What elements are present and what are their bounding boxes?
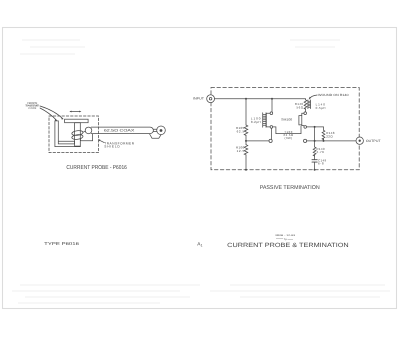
label FERRITE TRANSFORMER CORE — [25, 102, 39, 110]
wire to open terminal — [246, 140, 269, 142]
T bracket — [302, 113, 304, 125]
junction dot — [314, 126, 316, 128]
svg-text:62.5: 62.5 — [237, 129, 245, 133]
wire — [245, 135, 247, 144]
junction dot — [271, 98, 273, 100]
L100 label — [251, 116, 261, 124]
svg-text:CURRENT PROBE - P6016: CURRENT PROBE - P6016 — [66, 165, 127, 171]
output wire — [307, 140, 356, 142]
wire branch R140 — [305, 99, 307, 100]
transformer shield dashed box — [49, 116, 99, 153]
T100 label — [284, 130, 294, 140]
leader wire to slider core — [40, 106, 63, 119]
interconnect wire — [273, 126, 301, 133]
svg-text:TYPE P6016: TYPE P6016 — [44, 241, 80, 246]
wire down to R149 — [314, 127, 316, 147]
R148 label — [326, 131, 335, 138]
resistor R105 — [244, 125, 248, 135]
wound-on leader arrow — [309, 95, 317, 99]
wire L100 to open terminal — [270, 128, 272, 139]
center leg — [75, 123, 81, 146]
svg-text:CURRENT PROBE & TERMINATION: CURRENT PROBE & TERMINATION — [227, 242, 349, 249]
winding lead upper — [83, 131, 85, 132]
svg-text:INPUT: INPUT — [193, 97, 204, 101]
svg-text:12.5: 12.5 — [237, 149, 245, 153]
svg-text:PASSIVE TERMINATION: PASSIVE TERMINATION — [260, 185, 320, 191]
U core outer — [55, 121, 81, 147]
R105 label — [236, 126, 245, 133]
svg-text:8.2µH: 8.2µH — [251, 120, 261, 124]
winding turn 1 — [72, 130, 84, 136]
resistor R149 — [313, 147, 316, 156]
svg-text:Tµ: Tµ — [284, 238, 288, 241]
junction dot — [323, 140, 325, 142]
R140 label — [295, 102, 304, 109]
junction dot on shield — [314, 169, 316, 171]
L100 shield bracket — [266, 113, 270, 127]
svg-text:SM100: SM100 — [281, 117, 292, 121]
BNC flange — [150, 134, 161, 138]
svg-text:WOUND ON R140: WOUND ON R140 — [318, 93, 349, 97]
T terminal circle top — [304, 112, 307, 115]
U core inner — [58, 121, 74, 144]
top bus wire — [215, 98, 306, 100]
L140 winding ladder — [308, 100, 311, 109]
BNC center pin — [160, 129, 163, 132]
termination dashed box — [211, 88, 359, 170]
C149 label — [318, 158, 327, 165]
resistor R140 — [304, 100, 307, 109]
capacitor C149 — [312, 160, 317, 162]
label TRANSFORMER SHIELD — [104, 141, 134, 148]
svg-text:56Ω: 56Ω — [297, 106, 304, 110]
wire R140 to T — [305, 109, 307, 112]
sliding core bar — [65, 119, 89, 123]
wire R148 to output line — [323, 138, 325, 141]
svg-text:6-8: 6-8 — [318, 161, 324, 165]
svg-text:SHIELD: SHIELD — [104, 145, 120, 149]
L140 label — [316, 103, 326, 111]
wire branch L100 — [271, 99, 273, 112]
output connector — [356, 137, 363, 144]
wire C149 to shield — [314, 162, 316, 170]
T outer loop — [299, 116, 302, 125]
winding turn 2 — [72, 134, 84, 140]
slide double arrow — [71, 111, 81, 113]
ghost bleedthrough bottom — [12, 285, 390, 303]
svg-text:0.5µH: 0.5µH — [316, 106, 326, 110]
draftsman underline — [276, 239, 293, 240]
svg-text:MRH - 12-63: MRH - 12-63 — [276, 234, 296, 237]
T terminal circle bottom — [304, 126, 307, 129]
svg-text:OUTPUT: OUTPUT — [366, 139, 381, 143]
L100 winding ladder — [263, 113, 266, 128]
svg-text:CORE: CORE — [28, 107, 36, 110]
open terminal — [269, 139, 272, 142]
svg-text:4.7K: 4.7K — [316, 150, 324, 154]
open terminal output side — [304, 139, 307, 142]
winding lead lower wire — [80, 134, 92, 141]
leader wire to U core — [40, 108, 57, 120]
ghost bleedthrough top — [20, 40, 340, 54]
R100 label — [236, 146, 245, 153]
coax neck — [153, 129, 157, 131]
wire to bottom — [245, 155, 247, 170]
input connector — [207, 95, 215, 103]
resistor R148 — [322, 130, 325, 139]
svg-text:62.5Ω COAX: 62.5Ω COAX — [104, 129, 135, 133]
R149 label — [316, 147, 325, 154]
junction dot — [314, 140, 316, 142]
svg-text:22Ω: 22Ω — [326, 134, 333, 138]
resistor R100 — [244, 145, 248, 155]
probe BNC connector — [157, 126, 166, 135]
coax start circle — [85, 127, 92, 134]
L100 terminal circle bottom — [270, 126, 273, 129]
wire branch R105 — [245, 99, 247, 125]
L100 terminal circle top — [270, 112, 273, 115]
wire T to R148 — [307, 127, 324, 130]
junction dot node A — [245, 140, 247, 142]
junction dot — [245, 98, 247, 100]
coax tube — [91, 127, 153, 134]
wire R149 to C149 — [314, 155, 316, 160]
shield leader arrow — [99, 140, 104, 142]
junction dot on shield — [245, 169, 247, 171]
svg-text:(3W): (3W) — [285, 136, 293, 140]
